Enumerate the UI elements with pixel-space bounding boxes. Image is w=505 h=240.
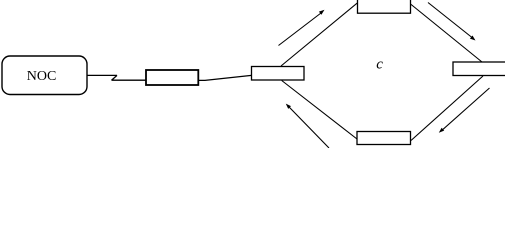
wire ring right-to-bottom diagonal [411, 76, 483, 141]
node NOC (rounded box) [2, 56, 87, 95]
arrow up-left (bottom to left) [286, 104, 329, 148]
wire break (zigzag) [112, 75, 118, 80]
arrow up-right (left to top) [279, 10, 325, 46]
wire break to middle box [112, 79, 146, 81]
ring right box (clipped at right) [453, 62, 505, 76]
svg-text:c: c [376, 57, 383, 73]
svg-text:NOC: NOC [27, 69, 57, 84]
ring left box [252, 67, 305, 81]
arrow down-left (right to bottom) [439, 88, 490, 133]
wire NOC to break [87, 74, 117, 76]
wire ring bottom-to-left diagonal [282, 81, 357, 140]
arrow down-right (top to right) [428, 3, 476, 41]
wire ring left-to-top diagonal [281, 3, 358, 66]
ring bottom box [357, 132, 411, 145]
wire ring top-to-right diagonal [411, 4, 483, 62]
middle box (link) [146, 70, 198, 85]
wire middle box to ring left box [198, 75, 251, 80]
ring top box (clipped at top) [358, 0, 411, 13]
